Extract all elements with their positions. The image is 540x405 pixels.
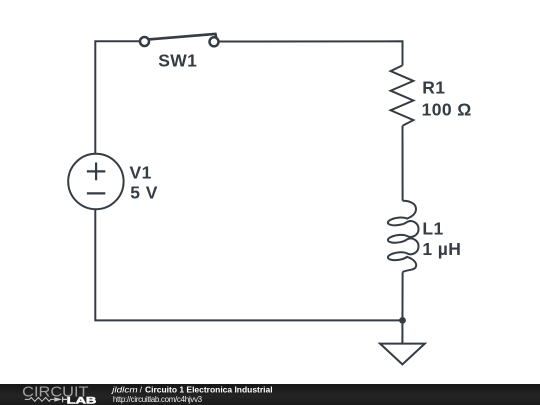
svg-text:R1: R1 bbox=[422, 78, 445, 98]
CircuitLab logo circuit squiggle wire + resistor zigzag bbox=[25, 398, 55, 402]
voltage source V1 minus sign bbox=[87, 192, 105, 194]
switch SW1 lever bbox=[149, 34, 217, 40]
junction node bbox=[399, 317, 406, 324]
ground symbol bbox=[380, 344, 425, 365]
svg-text:LAB: LAB bbox=[67, 396, 97, 405]
voltage source V1 plus sign bbox=[87, 163, 105, 181]
CircuitLab logo diode symbol bbox=[54, 398, 62, 402]
wire top-left segment bbox=[95, 41, 139, 154]
inductor L1 coil bbox=[388, 201, 419, 272]
svg-text:L1: L1 bbox=[422, 218, 443, 238]
wire inductor-bottom to ground bbox=[401, 272, 403, 343]
wire resistor-bottom to inductor-top bbox=[402, 126, 404, 201]
resistor R1 zigzag bbox=[391, 65, 414, 125]
svg-text:5 V: 5 V bbox=[130, 183, 157, 203]
wire switch-right to resistor-top bbox=[219, 41, 402, 65]
footer bar bbox=[0, 384, 540, 405]
voltage source V1 circle bbox=[68, 154, 123, 209]
CircuitLab logo diode bar + wire to LAB bbox=[63, 397, 69, 403]
svg-text:http://circuitlab.com/c4hjvv3: http://circuitlab.com/c4hjvv3 bbox=[113, 395, 203, 404]
svg-text:jldlcm: jldlcm bbox=[111, 385, 138, 395]
svg-text:/: / bbox=[140, 385, 143, 395]
wire bottom horizontal bbox=[95, 209, 402, 320]
switch SW1 left terminal bbox=[140, 37, 149, 46]
svg-text:Circuito 1 Electronica Industr: Circuito 1 Electronica Industrial bbox=[145, 386, 273, 395]
svg-text:100 Ω: 100 Ω bbox=[422, 100, 472, 120]
svg-text:SW1: SW1 bbox=[158, 51, 197, 71]
svg-text:1 µH: 1 µH bbox=[422, 239, 461, 259]
switch SW1 right terminal bbox=[210, 37, 219, 46]
svg-text:V1: V1 bbox=[130, 162, 152, 182]
